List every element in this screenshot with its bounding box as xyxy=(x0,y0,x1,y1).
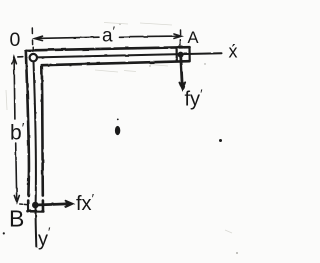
bar end edge at B xyxy=(28,210,44,213)
wire: short dash left of circle O xyxy=(18,56,23,58)
speck right xyxy=(219,139,222,142)
speck left xyxy=(3,232,5,234)
wire: vertical center line O to y' xyxy=(34,62,37,247)
svg-text:0: 0 xyxy=(10,29,21,51)
arrowhead fy' xyxy=(179,82,185,89)
extension dashes at A xyxy=(179,30,181,45)
dimension b' line upper segment xyxy=(13,59,16,120)
square left edge at A xyxy=(176,48,178,61)
square right edge at A xyxy=(188,47,190,61)
extension dashes at B xyxy=(20,203,27,206)
bar inner right edge xyxy=(42,65,43,211)
bar outer top edge xyxy=(26,47,190,50)
ink blot center xyxy=(3,119,222,235)
svg-text:A: A xyxy=(188,29,199,47)
wire: horizontal center line O to x-axis xyxy=(37,53,221,57)
dimension a' line left segment xyxy=(35,37,99,38)
node A: pin dot xyxy=(178,52,184,58)
svg-text:B: B xyxy=(9,206,24,232)
node B: pin dot xyxy=(32,202,39,209)
force fx' arrow stem xyxy=(39,204,67,205)
arrowhead fx' xyxy=(66,201,73,207)
dimension a' line right segment xyxy=(119,35,180,38)
extension dashes at O xyxy=(31,28,34,51)
bar inner bottom edge xyxy=(42,61,190,65)
arrowhead a' right xyxy=(174,34,181,38)
arrowhead b' top xyxy=(12,57,17,64)
force fy' arrow stem xyxy=(181,55,183,86)
arrowhead a' left xyxy=(35,36,43,40)
bar outer left edge xyxy=(26,50,29,211)
dimension b' line lower segment xyxy=(16,143,17,199)
node O: circle pin xyxy=(30,54,37,61)
arrowhead b' bottom xyxy=(14,196,19,203)
svg-text:x́: x́ xyxy=(229,42,238,62)
